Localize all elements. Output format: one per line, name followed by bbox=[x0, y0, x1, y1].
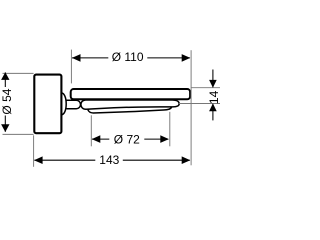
svg-text:Ø 54: Ø 54 bbox=[0, 88, 14, 114]
dimension 14 bbox=[212, 70, 214, 88]
dimension D54 bbox=[4, 72, 6, 87]
svg-text:Ø 110: Ø 110 bbox=[112, 50, 144, 64]
dimension D110 bbox=[72, 57, 108, 59]
extension line D54 bottom bbox=[3, 133, 34, 135]
dimension D72 bbox=[92, 138, 109, 140]
svg-text:143: 143 bbox=[99, 153, 119, 167]
extension line 143 left bbox=[33, 135, 35, 167]
extension line D110 left bbox=[70, 50, 72, 84]
extension line D54 top bbox=[3, 72, 34, 74]
arm bbox=[63, 100, 81, 108]
mounting dome on plate bbox=[61, 93, 66, 115]
top plate (holder, D110) bbox=[71, 89, 190, 99]
extension line D72 right bbox=[169, 112, 171, 147]
extension line D72 left bbox=[90, 115, 92, 146]
svg-text:14: 14 bbox=[207, 90, 220, 104]
dish middle layer (rim ring) bbox=[81, 100, 179, 109]
dimension 143 bbox=[34, 159, 95, 161]
stub line 14 bottom bbox=[179, 103, 220, 105]
dish bottom layer bbox=[88, 106, 171, 113]
svg-text:Ø 72: Ø 72 bbox=[114, 132, 140, 146]
extension line right shared D110/143 bbox=[190, 50, 192, 165]
wall plate bbox=[34, 75, 61, 134]
stub line 14 top bbox=[191, 87, 220, 89]
